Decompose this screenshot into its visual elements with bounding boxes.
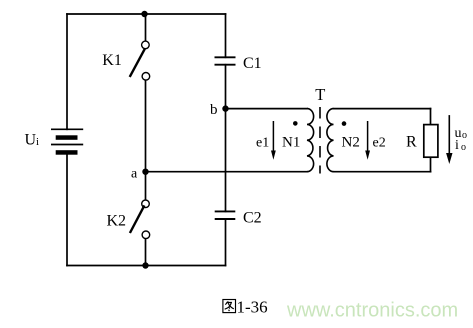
caption figure number 图1-36 (223, 298, 268, 317)
wire R branch lower (430, 156, 432, 171)
switch K2 (130, 200, 150, 239)
svg-text:R: R (406, 134, 417, 151)
wire C2 to bottom (225, 219, 227, 266)
svg-text:a: a (131, 167, 138, 182)
svg-text:o: o (462, 130, 467, 141)
polarity dot secondary (342, 121, 347, 126)
wire top horizontal (67, 13, 226, 15)
switch K1 (130, 41, 150, 80)
wire left rail upper (66, 14, 68, 129)
wire R branch upper (430, 109, 432, 125)
arrow e1 (271, 121, 276, 160)
wire secondary top (334, 108, 431, 110)
svg-text:C1: C1 (243, 55, 262, 72)
svg-text:C2: C2 (243, 210, 262, 227)
svg-text:K2: K2 (107, 212, 127, 229)
wire K1 branch upper (145, 14, 147, 41)
resistor R (424, 125, 438, 158)
wire node b to primary top (226, 108, 308, 110)
svg-text:e1: e1 (256, 136, 269, 151)
node junction top (141, 11, 147, 17)
wire secondary bottom (334, 171, 431, 173)
wire C1 to node b to C2 (225, 65, 227, 212)
svg-text:i: i (455, 138, 459, 153)
svg-text:e2: e2 (373, 136, 386, 151)
wire K2 to bottom (145, 239, 147, 266)
node junction bottom (142, 262, 148, 268)
svg-text:i: i (36, 136, 39, 148)
svg-text:N1: N1 (282, 135, 300, 151)
svg-text:T: T (315, 85, 325, 104)
arrow uo io output (446, 115, 452, 164)
wire bottom horizontal (67, 265, 226, 267)
transformer T primary winding N1 (307, 109, 314, 172)
transformer T secondary winding N2 (327, 109, 334, 172)
svg-text:U: U (25, 132, 37, 149)
wire left rail lower (66, 155, 68, 266)
arrow e2 (365, 121, 370, 160)
battery Ui plates (51, 129, 83, 154)
svg-text:b: b (210, 102, 218, 118)
svg-text:1-36: 1-36 (237, 298, 268, 317)
polarity dot primary (293, 121, 298, 126)
node b (222, 105, 228, 111)
svg-text:N2: N2 (342, 135, 360, 151)
capacitor C2 (215, 211, 236, 219)
node a (142, 169, 148, 175)
svg-text:o: o (461, 142, 466, 153)
wire node a to primary bottom (146, 171, 308, 173)
capacitor C1 (215, 57, 236, 64)
transformer core dashed line (319, 107, 321, 174)
svg-text:www.cntronics.com: www.cntronics.com (286, 300, 458, 322)
wire K1 to node a to K2 (145, 80, 147, 200)
svg-text:K1: K1 (102, 52, 122, 69)
wire capacitor branch upper (225, 14, 227, 57)
